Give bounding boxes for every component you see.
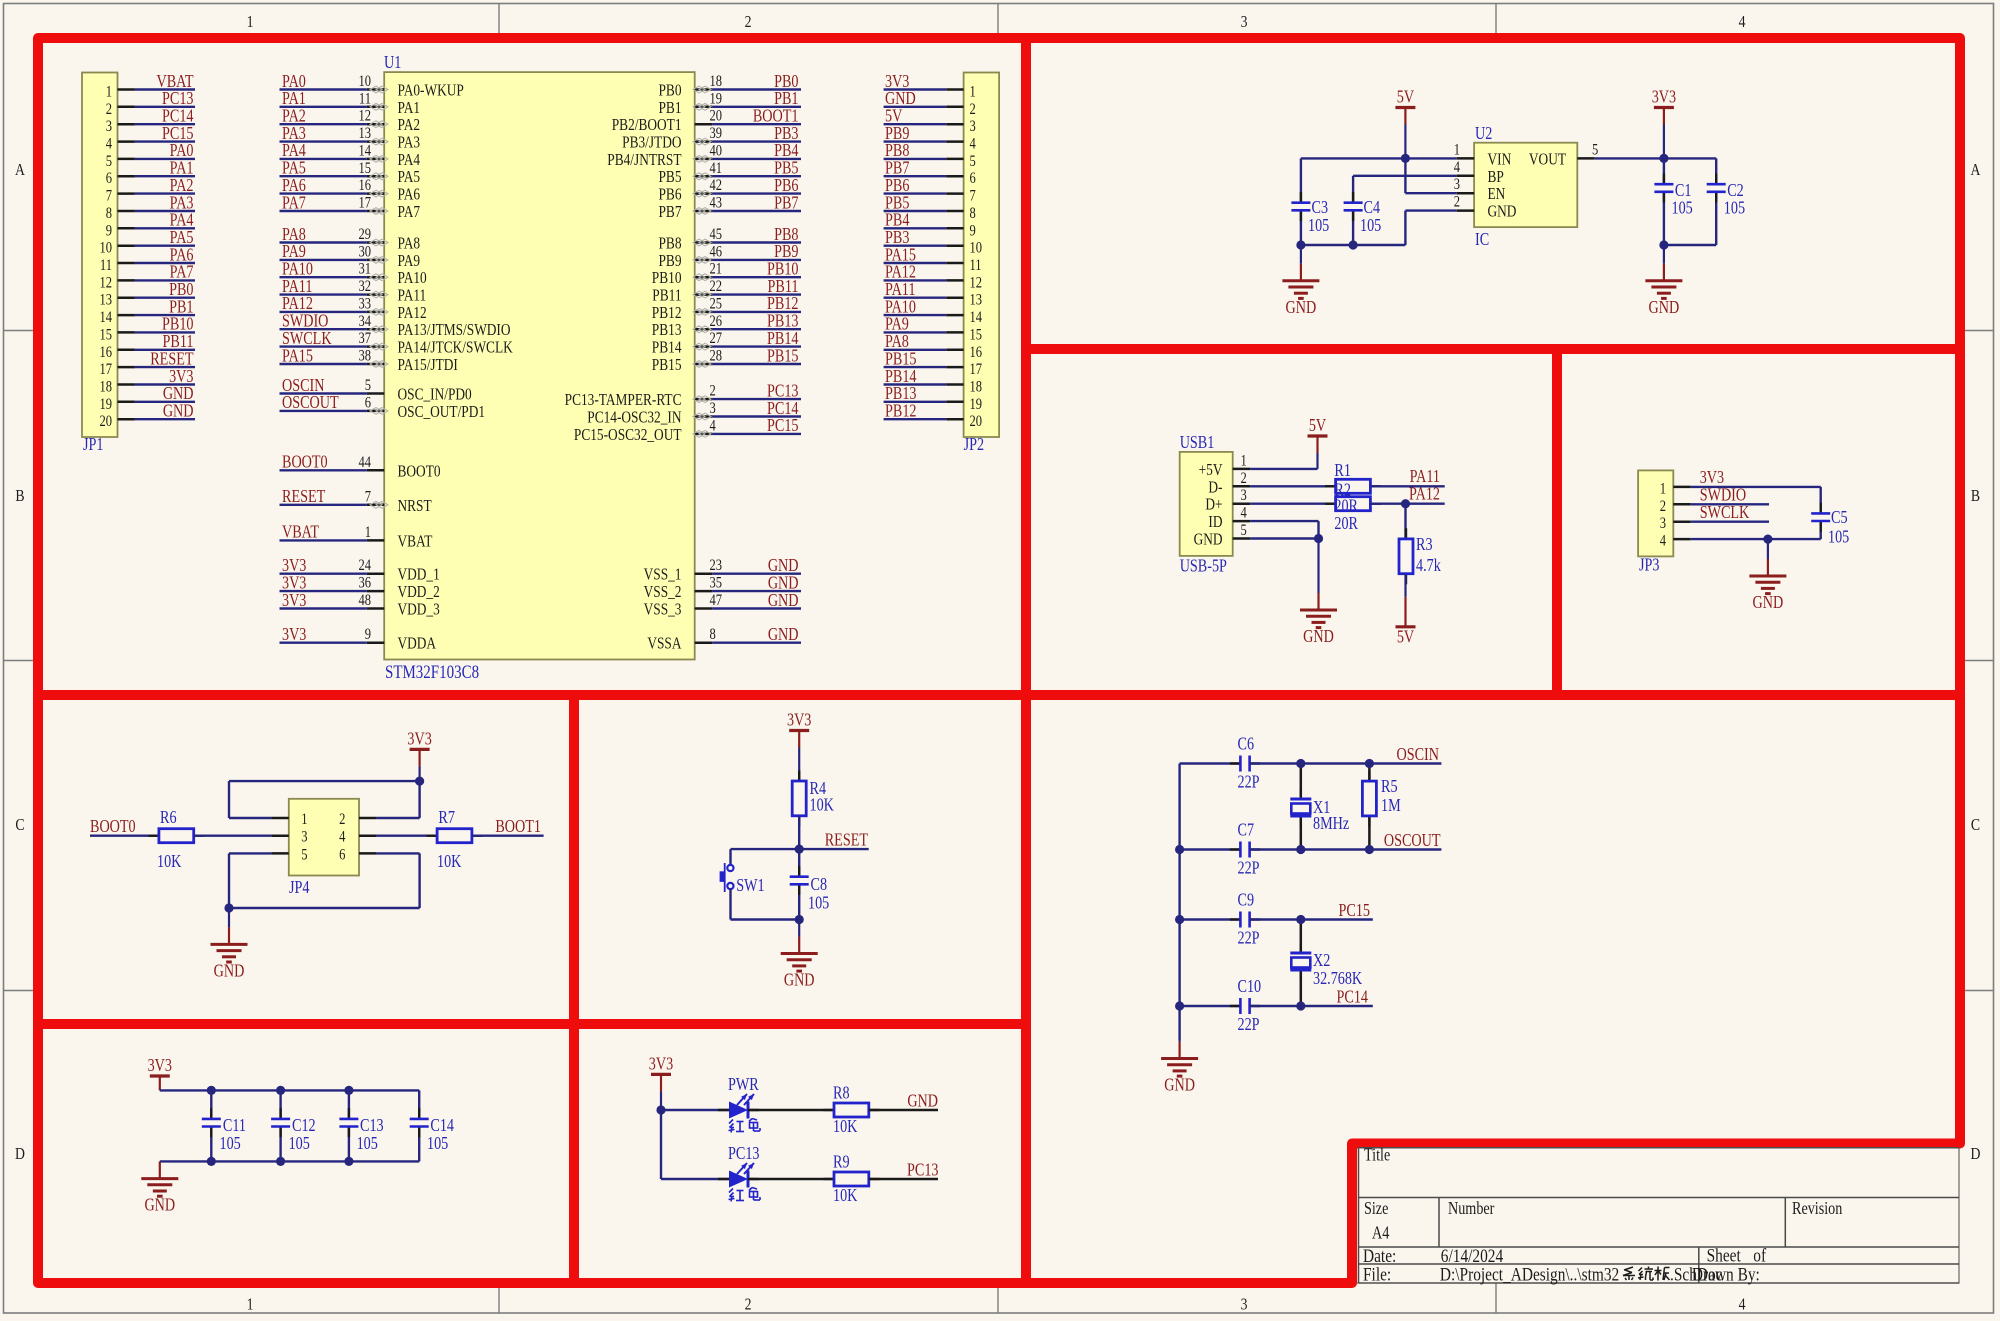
svg-text:C5: C5 (1831, 509, 1848, 528)
svg-text:PB7: PB7 (658, 204, 681, 222)
svg-text:GND: GND (1286, 299, 1317, 318)
svg-text:ID: ID (1208, 514, 1222, 532)
svg-text:PB11: PB11 (163, 333, 194, 352)
svg-text:9: 9 (970, 222, 976, 240)
svg-text:16: 16 (358, 177, 371, 195)
svg-text:1: 1 (970, 83, 976, 101)
svg-text:PA6: PA6 (282, 177, 306, 196)
svg-text:3: 3 (1241, 1295, 1248, 1314)
svg-text:PA7: PA7 (170, 263, 194, 282)
svg-text:OSC_OUT/PD1: OSC_OUT/PD1 (398, 404, 486, 422)
svg-text:22P: 22P (1238, 1016, 1260, 1035)
svg-text:10K: 10K (833, 1118, 858, 1137)
svg-text:32.768K: 32.768K (1313, 970, 1363, 989)
svg-text:R7: R7 (438, 809, 455, 828)
svg-text:17: 17 (358, 194, 371, 212)
svg-text:2: 2 (745, 1295, 752, 1314)
svg-text:C8: C8 (811, 876, 828, 895)
svg-text:Sheet: Sheet (1707, 1245, 1741, 1266)
svg-text:PA1: PA1 (170, 159, 194, 178)
svg-text:OSCOUT: OSCOUT (282, 394, 339, 413)
svg-text:C6: C6 (1238, 735, 1255, 754)
svg-text:GND: GND (768, 557, 799, 576)
svg-text:PB15: PB15 (652, 357, 682, 375)
svg-text:3V3: 3V3 (649, 1055, 673, 1074)
svg-text:9: 9 (365, 626, 371, 644)
svg-text:46: 46 (710, 243, 723, 261)
svg-text:PB14: PB14 (652, 339, 682, 357)
svg-text:14: 14 (358, 142, 371, 160)
svg-text:PB5: PB5 (774, 159, 798, 178)
svg-text:22: 22 (710, 278, 723, 296)
svg-text:PA15/JTDI: PA15/JTDI (398, 357, 458, 375)
svg-text:PA9: PA9 (885, 315, 909, 334)
svg-text:21: 21 (710, 261, 723, 279)
svg-text:1: 1 (1241, 452, 1247, 470)
svg-text:VBAT: VBAT (398, 533, 433, 551)
svg-text:3V3: 3V3 (407, 730, 431, 749)
svg-text:A: A (1971, 161, 1982, 180)
svg-text:29: 29 (358, 226, 371, 244)
svg-text:D:\Project_ADesign\..\stm32: D:\Project_ADesign\..\stm32 (1440, 1264, 1619, 1285)
svg-text:37: 37 (358, 330, 371, 348)
svg-text:C3: C3 (1312, 199, 1329, 218)
svg-text:105: 105 (808, 894, 829, 913)
svg-text:3V3: 3V3 (1652, 88, 1676, 107)
svg-text:6: 6 (339, 846, 345, 864)
svg-text:3V3: 3V3 (282, 592, 306, 611)
svg-text:PC15: PC15 (162, 125, 194, 144)
svg-text:20R: 20R (1334, 497, 1358, 516)
svg-text:PB15: PB15 (885, 350, 917, 369)
svg-text:PB12: PB12 (767, 295, 799, 314)
svg-text:PB0: PB0 (774, 73, 798, 92)
svg-text:20: 20 (710, 108, 723, 126)
svg-text:PB2/BOOT1: PB2/BOOT1 (612, 117, 682, 135)
svg-text:BOOT0: BOOT0 (90, 818, 136, 837)
svg-text:OSCIN: OSCIN (1397, 746, 1440, 765)
svg-text:23: 23 (710, 557, 723, 575)
svg-text:C14: C14 (430, 1117, 454, 1136)
svg-text:GND: GND (768, 574, 799, 593)
svg-text:10K: 10K (833, 1187, 858, 1206)
svg-text:17: 17 (970, 361, 983, 379)
svg-text:STM32F103C8: STM32F103C8 (385, 662, 479, 683)
svg-text:R3: R3 (1416, 536, 1433, 555)
svg-text:PB0: PB0 (658, 82, 681, 100)
svg-text:PB9: PB9 (658, 253, 681, 271)
svg-text:PC13: PC13 (162, 90, 194, 109)
svg-text:PA2: PA2 (282, 107, 306, 126)
svg-text:A: A (15, 161, 26, 180)
svg-text:GND: GND (907, 1092, 938, 1111)
svg-text:PB8: PB8 (774, 226, 798, 245)
svg-text:PC14: PC14 (767, 400, 799, 419)
svg-text:Title: Title (1364, 1146, 1390, 1165)
svg-text:2: 2 (1454, 193, 1460, 211)
svg-text:5V: 5V (1309, 417, 1327, 436)
svg-text:3V3: 3V3 (169, 368, 193, 387)
svg-text:4: 4 (339, 829, 345, 847)
svg-text:GND: GND (1753, 594, 1784, 613)
svg-text:1: 1 (1454, 141, 1460, 159)
svg-text:C10: C10 (1238, 978, 1262, 997)
svg-text:PA11: PA11 (282, 278, 312, 297)
svg-text:7: 7 (970, 187, 976, 205)
svg-text:PB3/JTDO: PB3/JTDO (622, 134, 682, 152)
svg-text:PA11: PA11 (398, 287, 427, 305)
svg-text:2: 2 (970, 101, 976, 119)
svg-text:105: 105 (1672, 199, 1693, 218)
svg-text:5: 5 (1241, 522, 1247, 540)
svg-text:PB3: PB3 (885, 229, 909, 248)
svg-text:PB6: PB6 (658, 186, 681, 204)
svg-text:2: 2 (1241, 470, 1247, 488)
svg-text:BOOT1: BOOT1 (495, 818, 541, 837)
svg-text:BP: BP (1488, 169, 1504, 187)
svg-text:PC13: PC13 (907, 1161, 939, 1180)
svg-text:C4: C4 (1364, 199, 1381, 218)
svg-text:8: 8 (970, 205, 976, 223)
svg-text:GND: GND (1488, 203, 1517, 221)
svg-text:PA5: PA5 (398, 169, 421, 187)
svg-text:22P: 22P (1238, 773, 1260, 792)
svg-text:BOOT1: BOOT1 (753, 107, 799, 126)
svg-text:105: 105 (427, 1135, 448, 1154)
svg-text:34: 34 (358, 313, 371, 331)
svg-text:1M: 1M (1381, 797, 1401, 816)
svg-text:PB7: PB7 (774, 194, 798, 213)
svg-text:C11: C11 (223, 1117, 246, 1136)
svg-text:2: 2 (106, 101, 112, 119)
svg-text:VOUT: VOUT (1529, 151, 1566, 169)
svg-text:30: 30 (358, 243, 371, 261)
svg-text:13: 13 (99, 292, 112, 310)
svg-text:35: 35 (710, 574, 723, 592)
svg-text:105: 105 (357, 1135, 378, 1154)
svg-text:4: 4 (1454, 159, 1460, 177)
svg-text:3V3: 3V3 (282, 574, 306, 593)
svg-text:PB8: PB8 (658, 235, 681, 253)
svg-text:27: 27 (710, 330, 723, 348)
svg-text:PA10: PA10 (398, 270, 427, 288)
svg-text:19: 19 (99, 396, 112, 414)
svg-text:C9: C9 (1238, 891, 1255, 910)
svg-text:6: 6 (970, 170, 976, 188)
svg-text:OSC_IN/PD0: OSC_IN/PD0 (398, 386, 472, 404)
svg-text:2: 2 (339, 811, 345, 829)
svg-text:GND: GND (784, 971, 815, 990)
svg-text:5: 5 (365, 377, 371, 395)
svg-text:PA1: PA1 (282, 90, 306, 109)
svg-text:7: 7 (106, 187, 112, 205)
svg-text:PB5: PB5 (658, 169, 681, 187)
svg-text:PC15-OSC32_OUT: PC15-OSC32_OUT (574, 427, 682, 445)
svg-text:PB4/JNTRST: PB4/JNTRST (607, 152, 681, 170)
svg-text:2: 2 (745, 13, 752, 32)
svg-text:3: 3 (970, 118, 976, 136)
svg-text:VIN: VIN (1488, 151, 1512, 169)
svg-text:R9: R9 (833, 1153, 850, 1172)
svg-text:Revision: Revision (1792, 1200, 1842, 1219)
svg-text:RESET: RESET (282, 488, 326, 507)
svg-text:VBAT: VBAT (157, 73, 194, 92)
svg-text:40: 40 (710, 142, 723, 160)
svg-text:PB5: PB5 (885, 194, 909, 213)
svg-text:1: 1 (247, 13, 254, 32)
svg-text:PA14/JTCK/SWCLK: PA14/JTCK/SWCLK (398, 339, 513, 357)
svg-text:16: 16 (99, 344, 112, 362)
svg-text:X2: X2 (1313, 952, 1330, 971)
svg-text:NRST: NRST (398, 498, 432, 516)
svg-text:PB14: PB14 (885, 368, 917, 387)
svg-text:PC14: PC14 (1337, 988, 1369, 1007)
svg-text:PA9: PA9 (282, 243, 306, 262)
svg-text:PB3: PB3 (774, 125, 798, 144)
svg-text:11: 11 (100, 257, 112, 275)
svg-text:8: 8 (710, 626, 716, 644)
svg-text:4: 4 (1739, 13, 1746, 32)
svg-text:PC14: PC14 (162, 107, 194, 126)
svg-text:VDD_1: VDD_1 (398, 567, 440, 585)
svg-text:5V: 5V (885, 107, 903, 126)
svg-text:3: 3 (106, 118, 112, 136)
svg-text:3: 3 (1660, 515, 1666, 533)
svg-text:9: 9 (106, 222, 112, 240)
svg-text:PA7: PA7 (398, 204, 421, 222)
svg-text:13: 13 (358, 125, 371, 143)
svg-text:PC13-TAMPER-RTC: PC13-TAMPER-RTC (565, 392, 682, 410)
svg-text:VDD_2: VDD_2 (398, 584, 440, 602)
svg-text:B: B (1971, 487, 1980, 506)
svg-text:Size: Size (1364, 1200, 1388, 1219)
svg-text:OSCIN: OSCIN (282, 377, 325, 396)
svg-text:1: 1 (1660, 480, 1666, 498)
svg-text:26: 26 (710, 313, 723, 331)
svg-text:PA8: PA8 (885, 333, 909, 352)
svg-text:Drawn By:: Drawn By: (1692, 1264, 1760, 1285)
svg-text:105: 105 (220, 1135, 241, 1154)
svg-text:C: C (1971, 816, 1980, 835)
svg-text:GND: GND (144, 1196, 175, 1215)
svg-text:PB0: PB0 (169, 281, 193, 300)
svg-text:D: D (1971, 1145, 1981, 1164)
svg-text:8: 8 (106, 205, 112, 223)
svg-text:44: 44 (358, 454, 371, 472)
svg-text:PA2: PA2 (170, 177, 194, 196)
svg-text:GND: GND (1649, 299, 1680, 318)
svg-text:PA4: PA4 (398, 152, 421, 170)
svg-text:OSCOUT: OSCOUT (1384, 832, 1441, 851)
svg-text:PB1: PB1 (169, 298, 193, 317)
svg-text:PA10: PA10 (282, 260, 313, 279)
svg-text:105: 105 (1360, 217, 1381, 236)
svg-text:PA3: PA3 (398, 134, 421, 152)
svg-text:RESET: RESET (150, 350, 194, 369)
svg-text:32: 32 (358, 278, 371, 296)
svg-text:D: D (15, 1145, 25, 1164)
svg-text:5: 5 (970, 153, 976, 171)
svg-text:11: 11 (970, 257, 982, 275)
svg-text:PB10: PB10 (767, 260, 799, 279)
svg-text:PC15: PC15 (767, 417, 799, 436)
svg-text:5: 5 (1592, 141, 1598, 159)
svg-text:PA2: PA2 (398, 117, 421, 135)
svg-text:JP1: JP1 (83, 436, 103, 455)
svg-text:PB4: PB4 (774, 142, 798, 161)
svg-text:PB10: PB10 (652, 270, 682, 288)
svg-text:VDD_3: VDD_3 (398, 601, 440, 619)
svg-text:1: 1 (106, 83, 112, 101)
svg-text:42: 42 (710, 177, 723, 195)
svg-text:C12: C12 (292, 1117, 316, 1136)
svg-text:D+: D+ (1205, 497, 1222, 515)
svg-text:4: 4 (1660, 532, 1666, 550)
svg-text:GND: GND (1303, 628, 1334, 647)
svg-text:18: 18 (970, 378, 983, 396)
svg-text:12: 12 (358, 108, 371, 126)
svg-text:SW1: SW1 (736, 877, 764, 896)
svg-text:VSSA: VSSA (647, 636, 681, 654)
svg-text:JP4: JP4 (289, 879, 310, 898)
svg-text:PC13: PC13 (767, 382, 799, 401)
svg-text:SWDIO: SWDIO (282, 312, 328, 331)
svg-text:C1: C1 (1675, 182, 1692, 201)
svg-text:22P: 22P (1238, 859, 1260, 878)
svg-text:6: 6 (106, 170, 112, 188)
svg-text:PA0-WKUP: PA0-WKUP (398, 82, 464, 100)
svg-text:3: 3 (301, 829, 307, 847)
svg-text:R6: R6 (160, 809, 177, 828)
svg-text:10K: 10K (157, 853, 182, 872)
svg-text:20: 20 (99, 413, 112, 431)
svg-text:GND: GND (1164, 1076, 1195, 1095)
svg-text:PB11: PB11 (652, 287, 681, 305)
svg-text:SWCLK: SWCLK (1700, 504, 1750, 523)
svg-text:PA12: PA12 (885, 263, 916, 282)
svg-text:PA5: PA5 (170, 229, 194, 248)
svg-text:4: 4 (710, 417, 716, 435)
svg-text:IC: IC (1475, 231, 1489, 250)
svg-text:Number: Number (1448, 1200, 1495, 1219)
svg-text:USB1: USB1 (1180, 434, 1215, 453)
svg-text:PB4: PB4 (885, 211, 909, 230)
svg-text:1: 1 (247, 1295, 254, 1314)
svg-text:15: 15 (358, 160, 371, 178)
svg-text:of: of (1753, 1245, 1766, 1266)
svg-text:13: 13 (970, 292, 983, 310)
svg-text:PA15: PA15 (885, 246, 916, 265)
svg-text:PB13: PB13 (652, 322, 682, 340)
svg-text:PA11: PA11 (1410, 468, 1440, 487)
svg-text:3V3: 3V3 (885, 73, 909, 92)
svg-text:3: 3 (710, 400, 716, 418)
svg-text:4: 4 (1739, 1295, 1746, 1314)
svg-text:GND: GND (163, 385, 194, 404)
svg-text:11: 11 (359, 90, 371, 108)
svg-text:15: 15 (99, 326, 112, 344)
svg-text:PB13: PB13 (767, 312, 799, 331)
svg-text:RESET: RESET (825, 831, 869, 850)
svg-text:C7: C7 (1238, 821, 1255, 840)
svg-text:48: 48 (358, 592, 371, 610)
svg-text:PA4: PA4 (170, 211, 194, 230)
svg-text:GND: GND (214, 962, 245, 981)
svg-text:2: 2 (710, 382, 716, 400)
svg-text:VSS_1: VSS_1 (644, 567, 682, 585)
svg-text:VSS_3: VSS_3 (644, 601, 682, 619)
svg-text:D-: D- (1208, 479, 1222, 497)
svg-text:PB1: PB1 (658, 100, 681, 118)
svg-text:17: 17 (99, 361, 112, 379)
svg-text:105: 105 (1724, 199, 1745, 218)
svg-text:PA6: PA6 (170, 246, 194, 265)
svg-text:5: 5 (301, 846, 307, 864)
svg-text:PC13: PC13 (728, 1145, 760, 1164)
svg-text:PA12: PA12 (398, 305, 427, 323)
svg-text:C2: C2 (1727, 182, 1744, 201)
svg-text:10K: 10K (810, 796, 835, 815)
svg-text:12: 12 (99, 274, 112, 292)
svg-text:PA10: PA10 (885, 298, 916, 317)
svg-text:PA9: PA9 (398, 253, 421, 271)
svg-text:5V: 5V (1397, 88, 1415, 107)
svg-text:PC15: PC15 (1339, 902, 1371, 921)
svg-text:File:: File: (1363, 1264, 1391, 1285)
svg-text:PA8: PA8 (282, 226, 306, 245)
svg-text:PA13/JTMS/SWDIO: PA13/JTMS/SWDIO (398, 322, 511, 340)
svg-text:38: 38 (358, 347, 371, 365)
svg-text:GND: GND (1194, 531, 1223, 549)
svg-text:22P: 22P (1238, 929, 1260, 948)
svg-text:19: 19 (710, 90, 723, 108)
svg-text:PB7: PB7 (885, 159, 909, 178)
svg-text:PB6: PB6 (774, 177, 798, 196)
svg-text:1: 1 (301, 811, 307, 829)
svg-text:VDDA: VDDA (398, 636, 437, 654)
svg-text:+5V: +5V (1199, 462, 1223, 480)
svg-text:PA5: PA5 (282, 159, 306, 178)
svg-text:PC14-OSC32_IN: PC14-OSC32_IN (587, 409, 681, 427)
svg-text:PB1: PB1 (774, 90, 798, 109)
svg-text:PA7: PA7 (282, 194, 306, 213)
svg-text:105: 105 (1308, 217, 1329, 236)
svg-text:18: 18 (99, 378, 112, 396)
svg-text:3V3: 3V3 (282, 626, 306, 645)
svg-text:24: 24 (358, 557, 371, 575)
svg-text:VSS_2: VSS_2 (644, 584, 682, 602)
svg-text:PB9: PB9 (885, 125, 909, 144)
svg-text:5V: 5V (1397, 628, 1415, 647)
svg-text:PA8: PA8 (398, 235, 421, 253)
svg-text:4: 4 (1241, 504, 1247, 522)
svg-text:1: 1 (365, 524, 371, 542)
svg-text:10: 10 (358, 73, 371, 91)
svg-text:3V3: 3V3 (148, 1057, 172, 1076)
svg-text:PA1: PA1 (398, 100, 421, 118)
svg-text:U1: U1 (384, 54, 401, 73)
svg-text:PA11: PA11 (885, 281, 915, 300)
svg-text:10: 10 (970, 240, 983, 258)
svg-text:GND: GND (163, 402, 194, 421)
svg-text:PA12: PA12 (282, 295, 313, 314)
svg-text:12: 12 (970, 274, 983, 292)
svg-text:PA12: PA12 (1409, 485, 1440, 504)
svg-text:BOOT0: BOOT0 (282, 453, 328, 472)
svg-text:SWDIO: SWDIO (1700, 486, 1746, 505)
svg-text:39: 39 (710, 125, 723, 143)
svg-text:PB15: PB15 (767, 347, 799, 366)
